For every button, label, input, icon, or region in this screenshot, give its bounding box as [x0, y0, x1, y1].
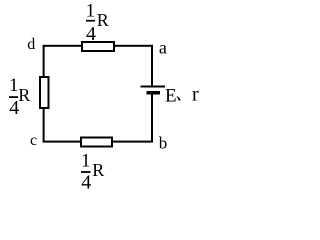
- svg-text:R: R: [18, 85, 30, 105]
- svg-text:b: b: [159, 134, 168, 153]
- svg-text:1: 1: [9, 75, 19, 96]
- svg-text:c: c: [30, 132, 37, 149]
- svg-text:R: R: [97, 10, 109, 30]
- svg-text:d: d: [27, 36, 35, 53]
- svg-text:1: 1: [86, 1, 96, 22]
- svg-text:1: 1: [81, 151, 91, 172]
- svg-text:4: 4: [81, 172, 91, 193]
- svg-text:R: R: [92, 160, 104, 180]
- svg-text:r: r: [192, 83, 199, 105]
- svg-text:a: a: [159, 37, 167, 57]
- svg-text:E: E: [165, 86, 177, 107]
- svg-text:4: 4: [86, 23, 96, 45]
